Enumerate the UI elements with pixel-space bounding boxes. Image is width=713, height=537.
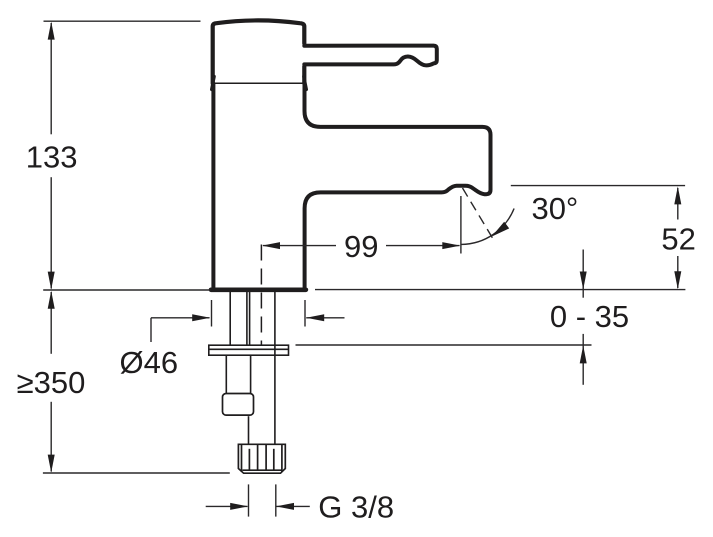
0-35 up arrow [580, 345, 587, 363]
lever handle [304, 46, 437, 66]
deck line right [315, 289, 685, 291]
G3/8 extension ticks [248, 484, 250, 516]
svg-text:52: 52 [661, 221, 695, 256]
hose right edge through flange [274, 345, 276, 355]
svg-text:133: 133 [26, 140, 78, 175]
svg-text:Ø46: Ø46 [119, 345, 178, 380]
133 top arrow [48, 22, 55, 40]
supply hose upper [250, 292, 275, 444]
angle arc [461, 209, 514, 245]
top extension line [44, 20, 201, 22]
cap joint flare ticks [212, 77, 307, 90]
bottom reference line [43, 472, 230, 474]
99 left arrow [262, 242, 280, 249]
faucet head cap outline [213, 20, 305, 83]
dim 52 line [677, 188, 679, 220]
threaded tube below flange [226, 355, 250, 393]
52 top extension line [511, 185, 685, 187]
0-35 lower reference line [296, 344, 592, 346]
dim 133 line [50, 23, 52, 134]
dia46 dim line and leader [151, 317, 210, 319]
0-35 down arrow [580, 272, 587, 290]
52 top arrow [674, 186, 681, 204]
cap joint line [212, 82, 305, 84]
G3/8 right arrow [276, 503, 294, 510]
svg-text:0 - 35: 0 - 35 [550, 299, 629, 334]
>=350 top arrow [48, 291, 55, 309]
svg-text:30°: 30° [531, 191, 578, 226]
dim >=350 line [50, 292, 52, 354]
G3/8 knurled nut [238, 444, 285, 473]
threaded stud below base [230, 292, 247, 345]
outlet 30 deg dashed axis [463, 188, 495, 242]
svg-text:≥350: ≥350 [17, 365, 86, 400]
dia46 extension ticks [211, 300, 213, 327]
outlet vertical reference [460, 196, 462, 254]
angle arc arrowhead [492, 222, 510, 237]
mounting flange washer [209, 345, 289, 355]
dia46 left arrow [192, 314, 210, 321]
dia46 right arrow [306, 314, 324, 321]
133 bottom arrow [48, 272, 55, 290]
faucet body and spout outline [213, 84, 490, 288]
svg-text:G 3/8: G 3/8 [318, 490, 394, 525]
52 bottom arrow [674, 271, 681, 289]
svg-text:99: 99 [344, 229, 378, 264]
lock nut [223, 394, 254, 416]
dim 0-35 lower arrow line [582, 334, 584, 385]
>=350 bottom arrow [48, 455, 55, 473]
faucet base bar [211, 287, 306, 292]
dim 0-35 upper arrow line [582, 250, 584, 298]
G3/8 left arrow [230, 503, 248, 510]
99 right arrow [442, 242, 460, 249]
hose lower left edge [248, 416, 250, 443]
dim 99 line [263, 245, 336, 247]
G3/8 dim line [206, 505, 248, 507]
deck extension left [43, 289, 210, 291]
centre axis dashed [260, 245, 262, 353]
